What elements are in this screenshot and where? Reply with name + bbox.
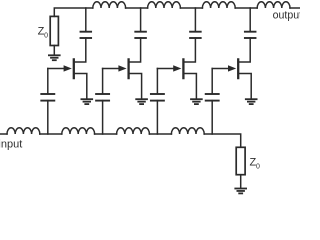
ground (source of Q4) bbox=[246, 99, 257, 104]
wire: Q1 source arm down to ground bbox=[74, 74, 87, 99]
wire: drain bus node 4 down to C8 bbox=[249, 8, 251, 32]
inductor L2 (gate line, stage 2) bbox=[62, 128, 95, 134]
value label Z0 (R2) bbox=[250, 157, 261, 171]
ground (source of Q3) bbox=[191, 99, 202, 104]
transistor Q2 (MESFET: gate arrow, channel bar) bbox=[103, 59, 129, 78]
inductor L4 (gate line, stage 4) bbox=[171, 128, 204, 134]
inductor L8 (drain line, stage 4) bbox=[257, 2, 290, 8]
capacitor C6 (drain coupling, stage 2) bbox=[135, 32, 146, 38]
inductor L5 (drain line, stage 1) bbox=[93, 2, 126, 8]
inductor L1 (gate line, stage 1) bbox=[7, 128, 40, 134]
wire: Q3 gate riser down to C3 bbox=[156, 69, 158, 94]
wire: drain bus segment to node 3 bbox=[180, 7, 202, 9]
wire: output lead bbox=[290, 7, 300, 9]
inductor L6 (drain line, stage 2) bbox=[148, 2, 181, 8]
wire: drain bus node 2 down to C6 bbox=[140, 8, 142, 32]
capacitor C5 (drain coupling, stage 1) bbox=[81, 32, 92, 38]
capacitor C1 (gate coupling, stage 1) bbox=[41, 94, 54, 101]
inductor L3 (gate line, stage 3) bbox=[117, 128, 150, 134]
transistor Q3 (MESFET: gate arrow, channel bar) bbox=[157, 59, 183, 78]
wire: drain bus node 1 down to C5 bbox=[85, 8, 87, 32]
wire: C7 down to Q3 drain arm bbox=[183, 38, 195, 62]
wire: C1 down to gate bus node 1 bbox=[47, 101, 49, 134]
wire: R2 to ground bbox=[240, 175, 242, 189]
wire: input lead bbox=[0, 133, 7, 135]
wire: C8 down to Q4 drain arm bbox=[238, 38, 250, 62]
wire: drain bus segment to node 4 bbox=[235, 7, 257, 9]
inductor L7 (drain line, stage 3) bbox=[202, 2, 235, 8]
wire: Q3 source arm down to ground bbox=[183, 74, 196, 99]
wire: Q4 gate riser down to C4 bbox=[211, 69, 213, 94]
wire: gate bus to R2 corner bbox=[204, 134, 241, 147]
resistor R1 (Z0, drain-line termination) bbox=[50, 16, 58, 45]
wire: drain bus segment to node 2 bbox=[126, 7, 148, 9]
resistor R2 (Z0, gate-line termination) bbox=[236, 147, 245, 174]
wire: Q4 source arm down to ground bbox=[238, 74, 251, 99]
wire: Q2 source arm down to ground bbox=[129, 74, 142, 99]
capacitor C4 (gate coupling, stage 4) bbox=[206, 94, 219, 101]
value label Z0 (R1) bbox=[38, 26, 49, 40]
wire: C5 down to Q1 drain arm bbox=[74, 38, 86, 62]
wire: drain bus node 3 down to C7 bbox=[194, 8, 196, 32]
ground (source of Q1) bbox=[81, 99, 92, 104]
wire: R1 to ground bbox=[53, 46, 55, 56]
capacitor C2 (gate coupling, stage 2) bbox=[96, 94, 109, 101]
svg-text:0: 0 bbox=[256, 164, 260, 171]
ground (source of Q2) bbox=[136, 99, 147, 104]
wire: gate bus segment to node 3 bbox=[95, 133, 117, 135]
svg-text:input: input bbox=[0, 138, 22, 150]
wire: C2 down to gate bus node 2 bbox=[102, 101, 104, 134]
ground (R2) bbox=[235, 189, 246, 194]
wire: C3 down to gate bus node 3 bbox=[156, 101, 158, 134]
wire: Q2 gate riser down to C2 bbox=[102, 69, 104, 94]
wire: Q1 gate riser down to C1 bbox=[47, 69, 49, 94]
ground (R1) bbox=[49, 55, 60, 60]
transistor Q4 (MESFET: gate arrow, channel bar) bbox=[212, 59, 238, 78]
wire: C6 down to Q2 drain arm bbox=[129, 38, 141, 62]
capacitor C8 (drain coupling, stage 4) bbox=[245, 32, 256, 38]
svg-text:output: output bbox=[273, 10, 300, 22]
wire: C4 down to gate bus node 4 bbox=[211, 101, 213, 134]
capacitor C7 (drain coupling, stage 3) bbox=[190, 32, 201, 38]
wire: drain-bus left corner down to R1 bbox=[54, 8, 93, 16]
wire: gate bus segment to node 2 bbox=[40, 133, 62, 135]
net label: input bbox=[0, 138, 22, 150]
svg-text:0: 0 bbox=[44, 33, 48, 40]
wire: gate bus segment to node 4 bbox=[149, 133, 171, 135]
net label: output bbox=[273, 10, 303, 22]
transistor Q1 (MESFET: gate arrow, channel bar) bbox=[48, 59, 74, 78]
capacitor C3 (gate coupling, stage 3) bbox=[151, 94, 164, 101]
